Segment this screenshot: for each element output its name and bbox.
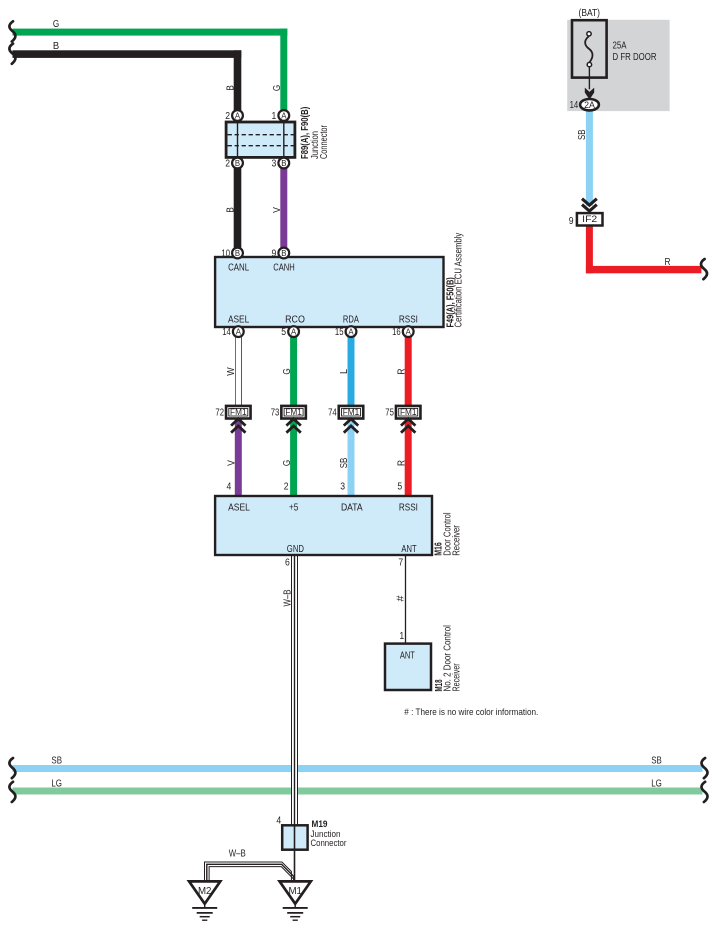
svg-text:5: 5 (281, 327, 286, 338)
svg-text:M1: M1 (288, 885, 302, 897)
svg-text:SB: SB (339, 457, 350, 468)
svg-text:IF2: IF2 (582, 214, 597, 224)
svg-text:A: A (291, 327, 297, 336)
svg-text:GND: GND (287, 543, 304, 555)
svg-text:R: R (396, 460, 407, 466)
svg-text:R: R (396, 369, 407, 375)
svg-text:B: B (235, 249, 240, 258)
svg-text:72: 72 (215, 407, 224, 418)
svg-text:SB: SB (577, 129, 588, 140)
svg-text:A: A (348, 327, 354, 336)
svg-text:B: B (235, 159, 240, 168)
svg-text:A: A (236, 327, 242, 336)
svg-text:14: 14 (570, 100, 579, 111)
svg-text:#: # (395, 595, 406, 601)
svg-text:B: B (281, 159, 286, 168)
svg-text:FM1: FM1 (400, 407, 417, 417)
svg-text:ASEL: ASEL (228, 501, 250, 513)
svg-text:R: R (665, 257, 671, 268)
svg-text:2A: 2A (584, 100, 595, 110)
svg-text:+5: +5 (289, 501, 298, 513)
svg-text:4: 4 (227, 482, 232, 493)
svg-text:1: 1 (272, 111, 277, 122)
svg-text:16: 16 (392, 327, 401, 338)
svg-text:LG: LG (51, 777, 62, 789)
svg-text:A: A (406, 327, 412, 336)
svg-text:M2: M2 (198, 885, 212, 897)
svg-text:3: 3 (272, 158, 277, 169)
svg-text:2: 2 (284, 482, 289, 493)
svg-text:25A: 25A (613, 41, 627, 52)
svg-text:B: B (53, 41, 60, 52)
svg-text:G: G (53, 19, 59, 30)
svg-text:Certification ECU Assembly: Certification ECU Assembly (453, 233, 464, 328)
svg-text:# : There is no wire color inf: # : There is no wire color information. (404, 707, 538, 717)
svg-text:4: 4 (276, 815, 281, 826)
svg-text:9: 9 (272, 248, 277, 259)
svg-text:ANT: ANT (400, 650, 415, 662)
svg-text:7: 7 (398, 557, 403, 568)
svg-text:CANL: CANL (228, 261, 249, 273)
svg-text:3: 3 (340, 482, 345, 493)
svg-text:L: L (339, 369, 350, 374)
svg-text:LG: LG (651, 777, 662, 789)
svg-text:15: 15 (335, 327, 344, 338)
svg-text:V: V (272, 207, 283, 213)
svg-text:A: A (281, 111, 287, 120)
svg-text:RSSI: RSSI (399, 501, 418, 513)
svg-text:73: 73 (271, 407, 280, 418)
svg-text:B: B (281, 249, 286, 258)
svg-text:D FR DOOR: D FR DOOR (613, 52, 657, 63)
svg-text:RSSI: RSSI (399, 314, 418, 326)
svg-text:FM1: FM1 (285, 407, 302, 417)
svg-text:W: W (226, 367, 237, 376)
svg-text:ASEL: ASEL (228, 314, 249, 326)
svg-text:74: 74 (328, 407, 337, 418)
svg-text:B: B (226, 207, 237, 213)
svg-text:G: G (282, 460, 293, 466)
svg-text:9: 9 (569, 216, 574, 227)
svg-text:CANH: CANH (273, 261, 295, 273)
svg-text:Receiver: Receiver (452, 663, 463, 692)
svg-text:B: B (226, 85, 237, 91)
svg-text:RDA: RDA (343, 314, 359, 326)
svg-text:Receiver: Receiver (451, 525, 462, 556)
svg-text:(BAT): (BAT) (579, 8, 601, 19)
svg-text:6: 6 (285, 557, 290, 568)
svg-text:2: 2 (225, 111, 230, 122)
svg-text:14: 14 (222, 327, 231, 338)
svg-text:75: 75 (385, 407, 394, 418)
svg-text:V: V (227, 460, 238, 466)
svg-text:ANT: ANT (401, 543, 417, 555)
svg-text:G: G (272, 85, 283, 91)
svg-text:A: A (235, 111, 241, 120)
svg-text:5: 5 (397, 482, 402, 493)
svg-text:DATA: DATA (341, 501, 363, 513)
svg-text:W–B: W–B (283, 589, 294, 606)
svg-text:10: 10 (221, 248, 230, 259)
svg-text:FM1: FM1 (343, 407, 360, 417)
svg-text:2: 2 (225, 158, 230, 169)
svg-text:FM1: FM1 (230, 407, 247, 417)
svg-text:W–B: W–B (229, 848, 246, 860)
svg-text:SB: SB (51, 755, 62, 767)
svg-text:Connector: Connector (311, 838, 347, 849)
svg-text:Connector: Connector (319, 125, 330, 159)
svg-text:RCO: RCO (285, 314, 305, 326)
svg-text:SB: SB (651, 755, 662, 767)
svg-text:G: G (282, 368, 293, 374)
svg-text:1: 1 (399, 631, 404, 642)
